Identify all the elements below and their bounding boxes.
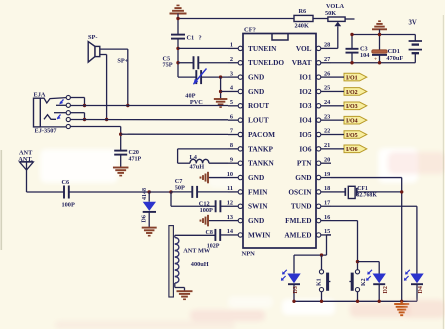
svg-text:EJ-3507: EJ-3507 [35, 128, 57, 135]
svg-text:6: 6 [230, 113, 233, 120]
svg-text:32.768K: 32.768K [356, 193, 377, 199]
svg-text:17: 17 [324, 199, 330, 206]
svg-text:23: 23 [324, 113, 330, 120]
svg-text:ROUT: ROUT [248, 101, 269, 110]
svg-text:C20: C20 [129, 150, 139, 156]
svg-text:SP-: SP- [88, 34, 97, 41]
svg-text:IO1: IO1 [299, 73, 312, 82]
svg-text:VBAT: VBAT [292, 58, 312, 67]
svg-text:470uF: 470uF [386, 55, 403, 62]
svg-text:MWIN: MWIN [248, 230, 271, 239]
svg-text:GND: GND [248, 216, 264, 225]
svg-text:?: ? [199, 34, 202, 41]
svg-text:K2: K2 [361, 278, 367, 286]
svg-text:50K: 50K [325, 10, 336, 17]
svg-text:24: 24 [324, 99, 331, 106]
svg-text:47uH: 47uH [190, 164, 205, 171]
svg-text:100P: 100P [200, 207, 213, 214]
svg-text:3V: 3V [409, 20, 417, 27]
svg-text:IO5: IO5 [299, 130, 312, 139]
svg-text:LOUT: LOUT [248, 116, 269, 125]
svg-text:PACOM: PACOM [248, 130, 275, 139]
svg-text:13: 13 [227, 214, 233, 221]
svg-text:I/O1: I/O1 [346, 75, 358, 81]
svg-text:102P: 102P [207, 244, 220, 250]
svg-text:C6: C6 [62, 179, 70, 186]
svg-text:IO3: IO3 [299, 101, 312, 110]
svg-text:27: 27 [324, 56, 330, 63]
svg-text:FMLED: FMLED [285, 216, 311, 225]
svg-text:12: 12 [227, 199, 233, 206]
svg-text:D3: D3 [293, 286, 299, 293]
svg-text:20: 20 [324, 156, 330, 163]
svg-text:5: 5 [230, 99, 233, 106]
svg-text:R6: R6 [299, 8, 307, 15]
svg-text:OSCIN: OSCIN [288, 187, 312, 196]
svg-text:L4: L4 [190, 154, 198, 161]
svg-text:TANKP: TANKP [248, 144, 274, 153]
svg-text:22: 22 [324, 128, 330, 135]
svg-text:VOL: VOL [296, 44, 312, 53]
svg-text:C8: C8 [206, 230, 213, 236]
svg-text:7: 7 [230, 128, 233, 135]
svg-text:+: + [374, 57, 377, 63]
svg-text:8: 8 [230, 142, 233, 149]
svg-text:GND: GND [248, 73, 264, 82]
svg-text:CF?: CF? [244, 27, 256, 34]
svg-text:21: 21 [324, 142, 330, 149]
svg-text:SWIN: SWIN [248, 202, 268, 211]
svg-text:11: 11 [227, 185, 233, 192]
svg-text:GND: GND [248, 87, 264, 96]
svg-text:TUNELDO: TUNELDO [248, 58, 284, 67]
svg-text:18: 18 [324, 185, 330, 192]
svg-text:10: 10 [227, 171, 233, 178]
svg-text:9: 9 [230, 156, 233, 163]
svg-text:CF1: CF1 [357, 186, 368, 192]
svg-text:C1: C1 [187, 34, 195, 41]
svg-text:I/O2: I/O2 [346, 90, 358, 96]
svg-text:75P: 75P [163, 62, 173, 69]
svg-text:IO6: IO6 [299, 144, 312, 153]
svg-text:14: 14 [227, 228, 234, 235]
svg-text:TUND: TUND [291, 202, 312, 211]
svg-text:IO4: IO4 [299, 116, 312, 125]
svg-text:AMLED: AMLED [284, 230, 311, 239]
svg-text:I/O5: I/O5 [346, 133, 358, 139]
svg-text:I/O6: I/O6 [346, 147, 358, 153]
svg-text:3: 3 [230, 70, 233, 77]
svg-text:400uH: 400uH [191, 261, 209, 268]
svg-text:104: 104 [360, 52, 370, 59]
svg-text:26: 26 [324, 70, 330, 77]
svg-text:PTN: PTN [297, 159, 312, 168]
svg-text:I/O4: I/O4 [346, 118, 358, 124]
svg-text:TANKN: TANKN [248, 159, 275, 168]
svg-text:25: 25 [324, 85, 330, 92]
svg-text:D6: D6 [142, 215, 148, 222]
svg-text:K1: K1 [317, 278, 323, 286]
svg-text:IO2: IO2 [299, 87, 312, 96]
svg-text:471P: 471P [129, 157, 142, 163]
svg-text:GND: GND [295, 173, 311, 182]
svg-text:16: 16 [324, 214, 330, 221]
svg-text:15: 15 [324, 228, 330, 235]
svg-text:28: 28 [324, 42, 330, 49]
svg-text:FMIN: FMIN [248, 187, 268, 196]
svg-text:19: 19 [324, 171, 330, 178]
svg-text:D2: D2 [383, 286, 389, 293]
svg-text:50P: 50P [175, 184, 185, 191]
svg-text:GND: GND [248, 173, 264, 182]
svg-text:TUNEIN: TUNEIN [248, 44, 277, 53]
svg-text:1: 1 [230, 42, 233, 49]
svg-text:240K: 240K [295, 23, 309, 30]
svg-text:SP+: SP+ [117, 57, 128, 64]
svg-text:2: 2 [230, 56, 233, 63]
svg-text:NPN: NPN [242, 251, 256, 258]
svg-text:4148: 4148 [142, 188, 148, 200]
svg-text:I/O3: I/O3 [346, 104, 358, 110]
svg-text:100P: 100P [62, 201, 75, 208]
svg-text:D4: D4 [418, 286, 424, 293]
